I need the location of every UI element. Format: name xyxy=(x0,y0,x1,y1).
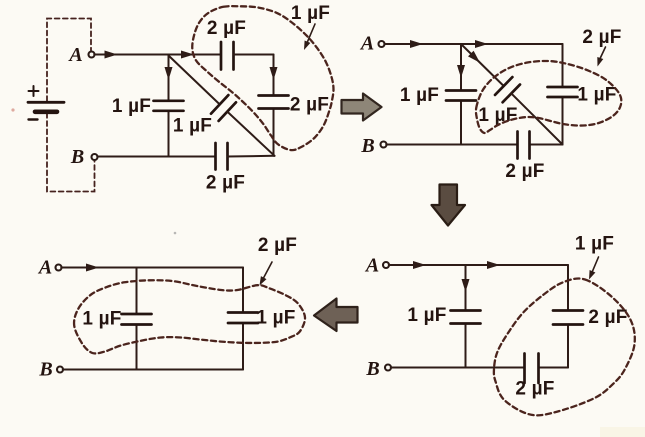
terminal A (circuit 1) xyxy=(89,52,95,58)
wire: circuit 2 bottom rail xyxy=(386,144,562,146)
terminal B (circuit 1) xyxy=(92,154,98,160)
svg-text:2 µF: 2 µF xyxy=(258,235,297,256)
battery V1 (dashed source loop, top lead) xyxy=(47,19,91,102)
wire: circuit 4 top rail xyxy=(61,267,243,269)
battery V1 polarity - xyxy=(29,118,38,120)
current arrow on circuit 2 top rail after A xyxy=(410,40,423,48)
wire: circuit 1 bottom rail C_bot to corner xyxy=(228,155,275,158)
capacitor 2uF (circuit 2 bottom) xyxy=(518,132,530,159)
equivalence ellipse (circuit 1, series 2uF+2uF) xyxy=(192,6,333,150)
terminal B (circuit 4) xyxy=(57,367,63,373)
terminal A (circuit 2) xyxy=(379,41,385,47)
wire: circuit 1 right branch xyxy=(273,55,275,156)
equivalence ellipse (circuit 3, series 2uF+2uF) xyxy=(494,278,635,415)
wire: circuit 3 right branch xyxy=(567,265,569,368)
current arrow on circuit 2 top rail after node xyxy=(475,40,488,48)
svg-text:A: A xyxy=(37,257,52,279)
wire: circuit 1 left branch xyxy=(168,55,170,157)
svg-text:1 µF: 1 µF xyxy=(82,309,121,330)
svg-text:1 µF: 1 µF xyxy=(577,85,616,106)
svg-text:1 µF: 1 µF xyxy=(575,234,614,255)
current arrow on top rail after node xyxy=(181,51,194,59)
flow arrow step 1 (block arrow right) xyxy=(342,94,382,121)
svg-text:B: B xyxy=(38,359,52,381)
leader arrow to circuit 1 ellipse xyxy=(304,24,315,50)
svg-text:2 µF: 2 µF xyxy=(582,27,621,48)
wire: circuit 3 left branch xyxy=(465,265,467,368)
wire: circuit 3 bottom rail xyxy=(391,367,568,369)
battery V1 polarity + xyxy=(29,86,39,96)
svg-text:2 µF: 2 µF xyxy=(206,173,245,194)
svg-text:1 µF: 1 µF xyxy=(478,105,517,126)
wire: circuit 2 diagonal upper segment xyxy=(461,44,504,86)
capacitor 1uF (circuit 1 bridge, slanted plates) xyxy=(211,95,236,121)
leader arrow to circuit 2 ellipse xyxy=(597,47,605,67)
wire: circuit 3 top rail xyxy=(389,264,568,266)
svg-text:2 µF: 2 µF xyxy=(515,379,554,400)
svg-text:1 µF: 1 µF xyxy=(291,3,330,24)
terminal A (circuit 3) xyxy=(383,262,389,268)
capacitor 1uF (circuit 4 left) xyxy=(122,314,152,325)
capacitor 2uF (circuit 3 right) xyxy=(553,311,583,325)
svg-text:B: B xyxy=(360,135,374,157)
equivalence ellipse (circuit 4, parallel 1uF+1uF) xyxy=(74,280,305,353)
svg-text:A: A xyxy=(67,44,82,66)
capacitor 1uF (circuit 3 left) xyxy=(451,311,481,324)
wire: circuit 1 top rail C_top to right corner xyxy=(234,54,274,56)
capacitor 1uF (circuit 4 right) xyxy=(228,313,258,324)
current arrow on top rail after A xyxy=(105,51,118,59)
svg-text:1 µF: 1 µF xyxy=(112,96,151,117)
svg-text:A: A xyxy=(364,255,379,277)
wire: circuit 2 left branch xyxy=(460,44,462,145)
capacitor 2uF (circuit 1 right) xyxy=(259,96,289,109)
wire: circuit 1 diagonal lower segment xyxy=(227,112,274,156)
svg-text:2 µF: 2 µF xyxy=(207,18,246,39)
svg-text:B: B xyxy=(365,358,379,380)
capacitor 2uF (circuit 1 top) xyxy=(221,42,234,70)
svg-text:1 µF: 1 µF xyxy=(400,85,439,106)
wire: circuit 4 right branch xyxy=(242,268,244,370)
wire: circuit 2 diagonal lower segment xyxy=(511,93,562,144)
flow arrow step 3 (block arrow left) xyxy=(314,299,358,332)
svg-text:2 µF: 2 µF xyxy=(505,161,544,182)
capacitor 2uF (circuit 1 bottom) xyxy=(216,143,228,170)
scan artifact: red speck left margin xyxy=(11,108,14,111)
flow arrow step 2 (block arrow down) xyxy=(432,185,466,226)
arrow on circuit 2 diagonal xyxy=(468,51,480,63)
scan artifact: gray speck center xyxy=(174,232,177,235)
wire: circuit 2 right branch xyxy=(562,44,564,145)
svg-text:A: A xyxy=(359,33,374,55)
svg-text:2 µF: 2 µF xyxy=(290,95,329,116)
svg-text:1 µF: 1 µF xyxy=(407,305,446,326)
scan artifact: warm patch bottom right xyxy=(600,427,645,437)
current arrow on circuit 4 top rail xyxy=(86,264,99,272)
capacitor 2uF (circuit 3 bottom) xyxy=(525,354,539,384)
svg-text:1 µF: 1 µF xyxy=(256,308,295,329)
capacitor 1uF (circuit 2 bridge, slanted plates) xyxy=(495,77,520,102)
branch arrow down (circuit 1 left) xyxy=(165,67,173,80)
svg-text:B: B xyxy=(70,146,84,168)
equivalence ellipse (circuit 2, parallel 1uF+1uF bean) xyxy=(476,61,621,133)
leader arrow to circuit 3 ellipse xyxy=(589,257,599,280)
branch arrow down (circuit 1 right) xyxy=(270,67,278,80)
branch arrow down (circuit 2 left) xyxy=(457,65,465,78)
capacitor 1uF (circuit 2 right) xyxy=(548,87,578,97)
capacitor 1uF (circuit 2 left) xyxy=(446,91,476,101)
svg-text:1 µF: 1 µF xyxy=(173,116,212,137)
leader arrow to circuit 4 ellipse xyxy=(260,262,273,286)
wire: circuit 1 diagonal upper segment xyxy=(169,56,220,105)
terminal B (circuit 3) xyxy=(385,365,391,371)
battery V1 (dashed source loop, bottom lead) xyxy=(47,113,95,192)
wire: circuit 1 bottom rail B to C_bot xyxy=(97,156,215,158)
terminal A (circuit 4) xyxy=(56,265,62,271)
current arrow on circuit 3 top rail after node xyxy=(487,261,500,269)
battery V1 plates xyxy=(28,102,64,112)
current arrow on circuit 3 top rail after A xyxy=(413,261,426,269)
wire: circuit 4 left branch xyxy=(136,268,138,370)
svg-text:2 µF: 2 µF xyxy=(588,307,627,328)
wire: circuit 4 bottom rail xyxy=(63,369,243,371)
capacitor 1uF (circuit 1 left) xyxy=(154,101,184,111)
wire: circuit 1 top rail A to C_top xyxy=(94,54,221,56)
wire: circuit 2 top rail xyxy=(384,43,562,45)
branch arrow down (circuit 3 left) xyxy=(462,279,470,292)
terminal B (circuit 2) xyxy=(381,142,387,148)
